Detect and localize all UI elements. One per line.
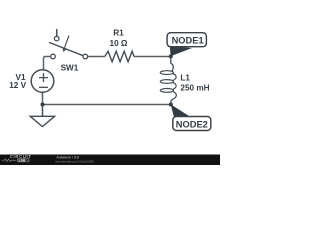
switch SW1 top terminal circle <box>54 36 59 41</box>
svg-text:NODE2: NODE2 <box>176 120 208 130</box>
switch SW1 actuator arrow <box>64 36 69 49</box>
watermark url line <box>56 161 95 164</box>
resistor R1 <box>105 51 134 62</box>
svg-text:Antamen / 9.8: Antamen / 9.8 <box>56 155 78 159</box>
NODE1 flag pointer <box>170 46 192 56</box>
wire V1 bottom to bottom junction <box>42 93 44 105</box>
ground stub <box>42 105 44 117</box>
inductor L1 loop 1 <box>160 71 173 75</box>
ground <box>30 116 54 126</box>
svg-text:250 mH: 250 mH <box>180 84 209 93</box>
switch SW1 right terminal circle <box>83 54 88 59</box>
watermark user line <box>56 155 78 159</box>
svg-text:SW1: SW1 <box>61 63 79 72</box>
svg-text:http://circuitlab.com/c/29a8c3: http://circuitlab.com/c/29a8c3638f5/ <box>56 161 95 164</box>
svg-text:R1: R1 <box>113 29 124 38</box>
ground junction dot <box>41 103 45 107</box>
svg-text:10 Ω: 10 Ω <box>110 39 128 48</box>
svg-text:LAB: LAB <box>19 158 26 162</box>
svg-text:12 V: 12 V <box>9 81 26 90</box>
NODE2 flag pointer <box>171 104 190 121</box>
node A junction dot (NODE1) <box>169 54 173 58</box>
inductor L1 loop 3 <box>160 89 173 93</box>
CircuitLab logo LAB <box>17 159 29 162</box>
NODE1 flag box <box>167 33 206 47</box>
switch SW1 left terminal circle <box>51 54 56 59</box>
inductor L1 connector 2 <box>173 82 177 89</box>
CircuitLab logo squiggle <box>2 159 16 162</box>
switch SW1 top stub <box>56 29 58 36</box>
switch SW1 lever <box>49 42 83 55</box>
NODE2 flag box <box>173 117 211 131</box>
svg-text:NODE1: NODE1 <box>172 36 204 46</box>
wire resistor to NODE1 junction <box>134 56 171 58</box>
wire V1 top to switch left terminal <box>44 57 51 70</box>
inductor L1 connector 1 <box>173 74 177 81</box>
wire switch right terminal to resistor <box>88 56 105 58</box>
inductor L1 exit <box>171 91 177 104</box>
V1 plus sign <box>39 73 48 82</box>
inductor L1 loop 2 <box>160 80 173 84</box>
inductor L1 <box>171 56 174 71</box>
watermark bar <box>0 155 220 166</box>
svg-text:L1: L1 <box>180 73 190 82</box>
V1 minus sign <box>39 86 48 88</box>
voltage source V1 <box>31 70 54 93</box>
node B junction dot (NODE2) <box>169 103 173 107</box>
wire bottom: V1 junction to NODE2 junction <box>43 104 171 106</box>
